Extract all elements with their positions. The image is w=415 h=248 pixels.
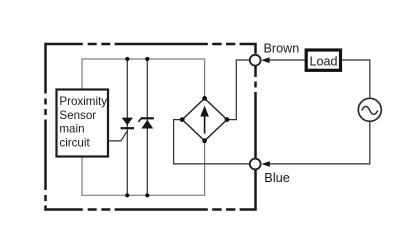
wire: Load to AC source [341,60,370,98]
terminal: Blue [250,159,261,170]
sensor enclosure border, left edge [44,43,47,211]
svg-text:Sensor: Sensor [59,109,96,122]
wire: top rail from main circuit box up and across to bridge top [82,59,205,98]
load box [306,50,340,70]
junction dot bottom rail / thyristor [125,193,129,197]
svg-text:Blue: Blue [264,170,290,185]
zener diode D1 [138,117,154,128]
arrow into Blue terminal [262,161,270,167]
junction dot bottom rail / zener [145,193,149,197]
Proximity Sensor main circuit box [57,90,109,157]
svg-text:circuit: circuit [59,136,90,149]
arrow into Brown terminal [261,57,269,63]
junction dot top rail / thyristor [125,57,129,61]
svg-text:Brown: Brown [264,42,300,56]
sensor enclosure border, bottom edge [45,208,257,211]
AC source [358,98,381,121]
wire: bridge left vertex to Blue terminal [174,120,251,164]
svg-text:main: main [59,123,84,136]
wire: bottom rail from main circuit box down and across to bridge bottom [82,141,205,196]
wire: thyristor column [126,59,128,195]
wire: zener column [146,59,148,195]
thyristor Q1 (SCR) [108,118,134,141]
wire: Load to Brown terminal [268,59,305,61]
sensor enclosure border, right edge [254,44,257,210]
sensor enclosure border (two-dot chain line), top edge [45,43,257,46]
diode bridge (diamond) with current arrow [180,96,230,143]
junction dot top rail / zener [145,57,149,61]
wire: AC source to Blue terminal [269,121,370,164]
wire: bridge right vertex to Brown terminal [227,60,250,120]
terminal: Brown [250,55,261,66]
svg-text:Proximity: Proximity [59,95,107,108]
svg-text:Load: Load [309,54,337,68]
